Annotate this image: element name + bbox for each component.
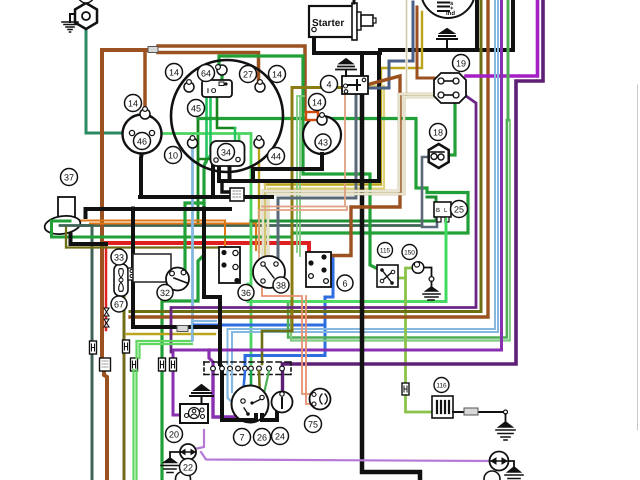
callout 32 <box>157 285 173 301</box>
svg-text:46: 46 <box>137 137 147 147</box>
wire slate gray generator to box4 <box>369 2 413 88</box>
wire darkgreen speedo inner <box>198 96 235 159</box>
wire green to switch32 <box>185 160 207 271</box>
wire purple x501 top <box>500 0 503 120</box>
wire black box34 drop <box>211 166 215 197</box>
wire brown top horizontal <box>102 48 148 52</box>
svg-text:36: 36 <box>241 288 251 298</box>
callout 38 <box>273 277 289 293</box>
connector H on lightgreen 116 <box>402 383 409 395</box>
lightgreen pair below connector <box>134 370 137 480</box>
svg-text:43: 43 <box>318 138 328 148</box>
svg-text:18: 18 <box>433 128 443 138</box>
svg-text:Starter: Starter <box>312 18 344 29</box>
bulb right in speedo <box>255 80 265 92</box>
callout 14 right <box>309 94 326 111</box>
wire khaki row y334 <box>127 333 215 335</box>
wire green bright 34 up <box>234 128 236 152</box>
callout 10 <box>165 147 182 164</box>
wire darkgreen speedo long row to frame <box>198 119 468 234</box>
wire lightblue gauge down <box>191 148 194 340</box>
wire palegreen pair right of speedo <box>297 96 304 256</box>
CALLOUTS <box>61 55 470 476</box>
svg-text:B: B <box>436 207 440 214</box>
side lamp 22 <box>180 444 196 460</box>
svg-text:6: 6 <box>342 279 347 289</box>
wire purple strip to coil <box>281 364 284 393</box>
wire black drop x133 <box>131 209 135 328</box>
svg-text:64: 64 <box>201 69 211 79</box>
wire green pair rows right nest <box>288 120 507 338</box>
callout 43 <box>315 134 331 150</box>
connector box on brown <box>100 358 111 371</box>
wire olive row y312 <box>130 120 481 312</box>
black stem of 43 <box>253 154 322 181</box>
faint scan line right edge <box>637 85 639 430</box>
wire red main row <box>106 243 309 261</box>
wire lightgreen speedo row <box>155 134 251 365</box>
connector A on olive <box>123 340 130 353</box>
svg-text:26: 26 <box>257 433 267 443</box>
connector A on lightgreen <box>131 358 138 371</box>
wire green row221 from box34 <box>251 197 436 221</box>
horn 37 <box>43 197 92 248</box>
wire brown main left vertical <box>102 50 107 480</box>
bulb for 10 <box>188 136 198 148</box>
wire black box4 long vertical <box>362 94 420 480</box>
wire black resistor to ground <box>453 411 505 413</box>
lighting switch box 36 <box>219 247 240 283</box>
callout 116 <box>434 378 449 393</box>
wire teal long left vertical <box>91 227 94 480</box>
wire khaki drop to circle38 <box>264 185 266 258</box>
wire gray horn18 to box25 <box>422 157 437 227</box>
wire green switch to dark green bottom <box>162 203 204 480</box>
horn relay box 20 <box>180 404 208 423</box>
callout 67 <box>111 296 127 312</box>
svg-text:34: 34 <box>221 148 231 158</box>
callout 22 <box>180 459 197 476</box>
ignition warning circle 43 <box>303 116 341 155</box>
callout 27 <box>240 66 257 83</box>
svg-text:27: 27 <box>243 70 253 80</box>
svg-text:115: 115 <box>380 248 391 255</box>
flasher 75 <box>310 389 331 410</box>
red bullet connectors <box>104 308 109 327</box>
ignition switch 32 <box>166 268 189 291</box>
callout 46 <box>134 133 151 150</box>
svg-text:45: 45 <box>191 104 201 114</box>
wire black second vertical <box>377 53 381 181</box>
connector H on teal <box>90 341 97 354</box>
fuse box 19 <box>434 73 466 103</box>
wire brown fork lower branch to bulb 27 <box>158 53 259 83</box>
callout 4 <box>321 76 338 93</box>
partial lamp bottom right <box>484 471 500 480</box>
wire black row208 from horn37 <box>86 209 231 217</box>
wire khaki row pair <box>265 12 422 185</box>
wire olive-brown fan to bottom <box>123 296 126 480</box>
lamp 150 <box>412 262 434 288</box>
svg-text:14: 14 <box>128 99 138 109</box>
wire lightgreen box115 to lamp <box>397 268 413 278</box>
callout 36 <box>238 285 254 301</box>
dip switch circle 38 <box>253 256 285 288</box>
wire black row181 <box>219 179 379 183</box>
callout 33 <box>111 249 127 265</box>
wire black box34 U loop <box>219 166 230 181</box>
wire violet bottom row <box>190 430 491 461</box>
wire brown to warning light 43 <box>158 46 305 111</box>
svg-text:14: 14 <box>169 68 179 78</box>
tail lamp right <box>490 452 509 471</box>
wire black generator top right <box>475 0 479 50</box>
wire brown box4 to box6 <box>326 76 400 256</box>
callout 24 <box>272 428 289 445</box>
wire olive row331 drop to strip <box>262 331 292 364</box>
svg-text:116: 116 <box>436 383 447 390</box>
callout 3 flasher <box>0 0 1 1</box>
callout 45 <box>188 100 205 117</box>
svg-text:7: 7 <box>239 433 244 443</box>
ground under lamp150 <box>423 287 440 300</box>
wiper switch box 6 <box>306 252 331 287</box>
wire khaki bulb44 down <box>258 148 260 252</box>
wire purple strip1 down distributor <box>213 371 247 417</box>
distributor 7 <box>232 386 269 423</box>
wire brown right vertical <box>130 0 488 317</box>
bulb for 44 <box>254 136 264 148</box>
callout 44 <box>268 148 285 165</box>
wire brown generator to fusebox <box>417 7 434 78</box>
orange terminal on 43 <box>306 112 318 120</box>
svg-text:4: 4 <box>326 80 331 90</box>
callout 18 <box>430 124 447 141</box>
horn 18 hexagon <box>429 144 449 168</box>
wire brown second to lamp <box>143 50 147 108</box>
instrument box left of switch32 <box>133 254 171 282</box>
callout 26 <box>254 429 271 446</box>
wire olive fan drop connector <box>123 296 126 334</box>
svg-text:33: 33 <box>114 253 124 263</box>
box 34 instrument <box>211 141 245 166</box>
svg-text:37: 37 <box>64 173 74 183</box>
wire black solenoid drop <box>360 53 364 76</box>
callout 34 <box>218 144 235 161</box>
speedometer 45 circle <box>171 60 283 172</box>
wire olive top vertical <box>480 0 483 120</box>
wire black stub to fuse connector <box>222 181 230 192</box>
connector on brown wire top <box>148 47 158 53</box>
starter motor <box>309 0 376 40</box>
dashed terminal strip <box>204 362 291 375</box>
ground for tail lamp <box>505 461 523 479</box>
wire black horn37 to red junction <box>71 232 107 244</box>
ground for horn H1 <box>62 14 78 32</box>
resistor 116 <box>432 396 453 418</box>
svg-text:32: 32 <box>160 288 170 298</box>
fuse connector center <box>230 188 244 201</box>
wire gray slate box4 to circle38 <box>278 94 356 257</box>
ground above box 20 <box>190 385 213 404</box>
ground for lamp 22 <box>161 452 180 473</box>
callout 75 <box>305 416 322 433</box>
lightgreen row pair detail <box>137 341 193 358</box>
solenoid switch box 4 <box>342 76 368 94</box>
wire green right x508 <box>507 0 510 120</box>
svg-text:Ind: Ind <box>446 10 455 17</box>
lamp bulb 14 right <box>317 113 327 125</box>
generator circle top <box>421 0 475 18</box>
svg-text:14: 14 <box>272 70 282 80</box>
wire white trunk <box>405 0 408 97</box>
wire black drop x204 to strip <box>204 209 220 365</box>
callout 64 <box>198 65 215 82</box>
wire black row197 <box>140 195 272 199</box>
ground black top right tee <box>446 39 448 50</box>
callout 19 <box>453 55 470 72</box>
box 25 BL <box>434 202 451 301</box>
WIRES-LONG <box>52 0 544 480</box>
black wire distributor to coil <box>222 411 277 420</box>
horn H1 hexagon top left <box>75 3 97 29</box>
wire purple strip drop <box>209 350 213 368</box>
wire gray to switch32 <box>138 256 168 257</box>
callout 6 <box>337 275 353 291</box>
switch box 115 <box>377 265 398 287</box>
svg-text:25: 25 <box>454 205 464 215</box>
connector A on purple <box>170 358 177 371</box>
wire khaki x292 vertical <box>292 88 342 332</box>
callout circle cut at top <box>78 0 94 3</box>
wire black row327 <box>133 325 220 329</box>
svg-text:I O: I O <box>207 88 217 95</box>
connector on resistor wire <box>464 408 478 415</box>
lamp bulb for callout 14 left <box>140 107 150 119</box>
wire purple bright fusebox <box>466 0 538 76</box>
wire black strip2 down <box>220 364 222 416</box>
svg-text:150: 150 <box>404 250 415 257</box>
svg-text:38: 38 <box>276 281 286 291</box>
svg-text:20: 20 <box>169 430 179 440</box>
svg-text:10: 10 <box>168 151 178 161</box>
svg-text:67: 67 <box>114 300 124 310</box>
callout 7 <box>234 429 251 446</box>
wire green bright from horn37 long row <box>52 221 293 237</box>
callout 25 <box>451 201 468 218</box>
wire purple thin fusebox down <box>171 96 476 352</box>
svg-text:44: 44 <box>271 152 281 162</box>
callout 14 top-left <box>125 95 142 112</box>
wire green top row across speedo <box>219 56 303 80</box>
connector gray on black row <box>177 326 188 332</box>
ground generator <box>437 29 457 49</box>
wire tan salmon from box4 <box>259 94 347 262</box>
wire purple dark x516 <box>283 0 544 364</box>
wire green fusebox to horn18 <box>447 102 455 155</box>
wire teal from horn to fuel gauge <box>86 28 128 133</box>
wire orange rows from horn37 to box36 <box>74 221 225 250</box>
ground right of resistor <box>496 410 515 440</box>
wire purple med x501 <box>173 0 502 415</box>
callout 37 <box>61 169 78 186</box>
fuel gauge 46 <box>123 115 162 154</box>
wire green pair from box64 down <box>207 96 211 162</box>
coil 24 <box>272 392 293 413</box>
wire darkgreen speedo drop <box>197 119 200 226</box>
svg-text:24: 24 <box>275 432 285 442</box>
svg-text:75: 75 <box>308 420 318 430</box>
bulb at top of speedo <box>216 65 227 75</box>
wire black gauge46 drop <box>141 152 142 197</box>
svg-text:22: 22 <box>183 463 193 473</box>
callout 14 speedo left <box>166 64 183 81</box>
wire salmon circle38 row <box>262 288 311 394</box>
box 64 map light switch <box>202 80 232 97</box>
ground above box 4 <box>336 59 356 76</box>
wire lightgreen main row y301 <box>248 217 446 302</box>
callout 150 <box>402 245 417 260</box>
wire black battery main <box>314 0 513 53</box>
fan motor 33 <box>114 264 135 296</box>
wire blue row box6 <box>194 325 325 364</box>
wire cream pair to circle38 <box>263 94 434 257</box>
wire olive row from horn37 <box>66 228 223 252</box>
wire red vertical with bullets <box>105 243 108 330</box>
svg-text:19: 19 <box>456 59 466 69</box>
wire blue box6 down <box>324 257 333 325</box>
wire teal row to horn18 gray <box>66 224 422 227</box>
callout 20 <box>166 426 183 443</box>
wires strip to distributor <box>228 371 270 403</box>
svg-text:14: 14 <box>312 98 322 108</box>
wire green row43 to 115 <box>303 56 378 269</box>
callout 115 <box>378 243 393 258</box>
wire lightblue rows from right nest <box>228 120 496 364</box>
wire lightblue right pair top <box>495 0 498 120</box>
partial lamp at bottom left <box>176 472 191 480</box>
wire lightgreen 116 resistor drop <box>406 278 433 412</box>
wire salmon second <box>306 296 311 404</box>
connector H on darkgreen <box>159 358 166 371</box>
bulb twin left in speedo <box>184 80 194 92</box>
callout 14 speedo right <box>269 66 286 83</box>
